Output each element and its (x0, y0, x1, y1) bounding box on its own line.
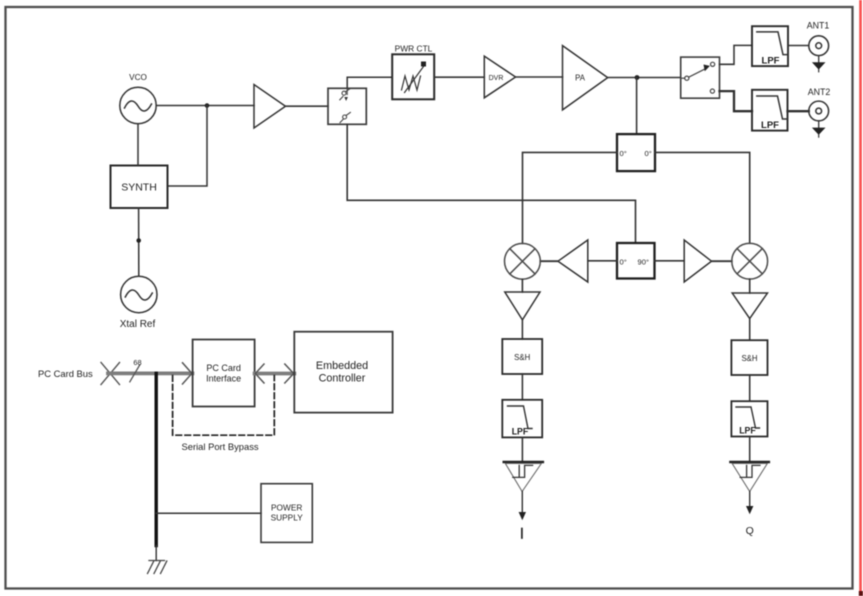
sample-hold S&H Q box (731, 340, 767, 375)
comparator Q (731, 462, 769, 492)
junction node at PA output (635, 75, 640, 80)
chassis ground (148, 561, 167, 574)
filter LPF2 box (752, 90, 788, 131)
LPF1 response icon (757, 32, 788, 55)
POWER SUPPLY box (261, 484, 312, 543)
wire mixer M1 to amp A4 (521, 279, 523, 292)
thick power rail down from bus (154, 373, 157, 545)
comparator I (504, 462, 543, 492)
svg-text:VCO: VCO (129, 73, 147, 82)
wire amp A2 to mixer M1 (540, 260, 558, 262)
svg-text:SUPPLY: SUPPLY (271, 513, 304, 523)
svg-text:Xtal Ref: Xtal Ref (120, 319, 156, 330)
svg-text:LPF: LPF (762, 56, 780, 67)
wire rail to POWER SUPPLY (156, 512, 261, 514)
LPF I response icon (508, 406, 533, 429)
wire amp A4 to S&H (521, 320, 523, 339)
amplifier A4 down pointing (505, 292, 540, 320)
red line bottom dark mark (859, 591, 863, 596)
junction node on SYNTH-Xtal wire (136, 238, 141, 243)
svg-text:S&H: S&H (514, 353, 530, 362)
wire S&H Q to LPF Q (749, 375, 751, 401)
phase splitter box 0/90 (617, 243, 655, 279)
wire comparator Q output (749, 492, 751, 508)
wire switch to LPF1 (720, 45, 753, 64)
LPF Q response icon (736, 407, 760, 428)
wire LPF I to comparator (521, 437, 523, 461)
attenuator symbol (402, 62, 427, 93)
wire S&H to LPF I (521, 374, 523, 400)
switch SW1 bottom contact glyph (340, 112, 350, 122)
wire LPF2 to ANT2 (788, 110, 809, 112)
wire mixer M2 to amp A5 (749, 279, 751, 293)
mixer M2 (732, 243, 768, 279)
svg-text:PWR CTL: PWR CTL (395, 44, 433, 54)
junction node (205, 103, 210, 108)
svg-text:ANT1: ANT1 (807, 21, 830, 31)
wire VCO to SYNTH (137, 124, 139, 166)
arrow I output (519, 512, 526, 520)
wire amp A5 to S&H Q (749, 319, 751, 341)
wire VCO to amp A1 (156, 105, 254, 107)
wire splitter to amp A3 (655, 260, 685, 262)
oscillator Xtal Ref (121, 276, 157, 312)
svg-text:PC Card: PC Card (206, 363, 241, 373)
amplifier A3 right pointing (684, 240, 711, 282)
svg-text:SYNTH: SYNTH (121, 182, 157, 194)
switch SW1 top contact glyph (340, 88, 350, 101)
red page edge line (859, 0, 862, 596)
mixer M1 (505, 243, 541, 279)
attenuator PWR CTL box (392, 54, 434, 99)
svg-text:DVR: DVR (489, 75, 504, 82)
svg-text:Serial Port Bypass: Serial Port Bypass (182, 441, 259, 452)
svg-text:PA: PA (575, 74, 586, 83)
wire splitter to amp A2 (588, 260, 617, 262)
dashed serial port bypass path (173, 376, 275, 436)
antenna switch contacts (681, 62, 715, 93)
filter LPF I box (502, 400, 542, 438)
svg-text:Embedded: Embedded (316, 360, 368, 372)
wire SW1 bottom to 90deg splitter (347, 124, 635, 243)
svg-text:PC Card Bus: PC Card Bus (38, 368, 93, 379)
wire switch to LPF2 (720, 91, 753, 111)
bus link to Embedded Controller (255, 372, 295, 376)
bus width slash (130, 365, 140, 382)
chevron right into Embedded Controller (285, 364, 294, 383)
switch SW2 box 0/0 (617, 134, 655, 171)
amplifier A5 down pointing (732, 293, 767, 319)
bus PC Card thick line (108, 371, 192, 375)
svg-text:LPF: LPF (739, 426, 756, 436)
svg-text:Controller: Controller (319, 373, 366, 385)
wire junction down to SYNTH feedback (168, 106, 208, 187)
svg-text:S&H: S&H (741, 354, 757, 363)
svg-text:Interface: Interface (206, 374, 241, 384)
wire LPF Q to comparator Q (749, 437, 751, 462)
chevron left at PC Card Interface (256, 364, 265, 383)
filter LPF Q box (731, 401, 767, 436)
Embedded Controller box (294, 332, 392, 413)
wire junction down to switch SW2 (636, 78, 638, 135)
label I (521, 529, 523, 539)
wire DVR to PA (516, 76, 563, 78)
LPF2 response icon (757, 96, 787, 119)
switch SW1 box (328, 88, 366, 124)
wire PA to antenna switch (608, 77, 681, 79)
synthesizer SYNTH (111, 166, 168, 209)
amplifier A1 buffer (254, 85, 286, 129)
wire amp A3 to mixer M2 (712, 260, 732, 262)
bus arrowhead into PC Card Interface (183, 363, 192, 384)
PC Card Interface box (193, 340, 255, 407)
connector ANT2 (809, 101, 829, 121)
bus entry X mark (101, 363, 120, 385)
wire LPF1 to ANT1 (788, 45, 809, 47)
ground at ANT2 (812, 121, 826, 137)
svg-text:90°: 90° (638, 258, 649, 267)
filter LPF1 box (752, 26, 788, 66)
amplifier A2 left pointing (558, 240, 588, 282)
wire SW1 top to PWR CTL (347, 77, 392, 88)
antenna switch SW3 box (681, 57, 720, 98)
svg-text:ANT2: ANT2 (808, 87, 831, 97)
oscillator VCO (120, 87, 156, 123)
svg-text:LPF: LPF (512, 427, 529, 437)
svg-text:POWER: POWER (271, 503, 302, 513)
wire SW2 left to mixer M1 (523, 152, 618, 243)
wire SW2 right to mixer M2 (655, 152, 750, 243)
svg-text:LPF: LPF (761, 120, 779, 131)
svg-text:0°: 0° (645, 149, 652, 158)
wire amp A1 to switch SW1 (286, 105, 329, 107)
amplifier PA (563, 46, 608, 110)
connector ANT1 (809, 36, 829, 56)
amplifier DVR (484, 56, 515, 98)
ground at ANT1 (812, 56, 826, 72)
wire SYNTH to Xtal (138, 208, 140, 276)
svg-text:Q: Q (746, 525, 754, 537)
sample-hold S&H I box (502, 339, 542, 374)
wire comparator I output (521, 492, 523, 514)
thin rail continuation to ground (155, 546, 157, 561)
arrow Q output (746, 506, 753, 514)
svg-text:68: 68 (133, 358, 141, 367)
wire PWR CTL to DVR (434, 76, 484, 78)
svg-text:0°: 0° (620, 258, 627, 267)
svg-text:0°: 0° (620, 149, 627, 158)
